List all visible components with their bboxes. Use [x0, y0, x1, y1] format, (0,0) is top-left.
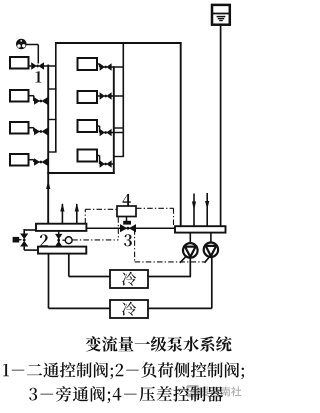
left group riser B	[55, 42, 57, 152]
return header manifold	[175, 226, 226, 232]
header interconnect pipe (left end, top)	[24, 229, 36, 235]
label 3	[124, 234, 132, 246]
bottom connector from left riser A to middle riser A	[47, 172, 114, 174]
fan-coil unit M3 (middle riser group)	[78, 120, 98, 132]
fan-coil unit L4 (left riser group)	[10, 154, 29, 166]
drop pipe to chiller 1	[69, 254, 110, 277]
supply stub with up arrow (1)	[60, 203, 64, 224]
chiller 1 (cold water unit)	[110, 270, 148, 288]
two-way control valve on coil L3 outlet	[29, 128, 50, 136]
watermark logo	[186, 385, 199, 397]
bypass valve 3	[120, 224, 136, 232]
label 4	[123, 194, 131, 206]
left group riser A (return)	[47, 65, 49, 224]
pump P2	[204, 243, 218, 257]
fan-coil unit M2 (middle riser group)	[78, 91, 98, 103]
control valve 1 actuator (circle symbol)	[16, 39, 27, 50]
drop pipe to chiller 2	[49, 254, 111, 309]
fan-coil unit M4 (middle riser group)	[78, 150, 98, 162]
sensing line tap on return header	[136, 208, 174, 226]
caption legend line 1	[3, 362, 244, 379]
pump P1 suction pipe	[189, 233, 191, 244]
supply main: right vertical drop	[180, 42, 182, 226]
middle group riser B	[122, 42, 124, 156]
two-way control valve on coil M4 outlet	[97, 156, 115, 168]
fan-coil unit L1 (left riser group)	[10, 57, 29, 69]
label 1	[36, 71, 42, 82]
signal line from actuator to valve 1	[27, 45, 39, 64]
supply stub with up arrow (2)	[75, 203, 79, 224]
pump P2 discharge pipe to chiller 2	[148, 257, 212, 308]
pump P1	[183, 243, 198, 258]
two-way control valve on coil L4 outlet	[29, 158, 50, 166]
shut-off valve with handle	[13, 234, 29, 247]
signal line from controller to valve 2	[72, 217, 118, 240]
watermark text	[200, 386, 242, 396]
rung between middle risers at row 3	[114, 127, 124, 129]
two-way control valve on coil M2 outlet	[97, 92, 124, 99]
supply main: top header line	[55, 42, 182, 44]
chiller supply manifold	[38, 247, 86, 254]
return stub with down arrow (1)	[192, 194, 196, 227]
rung between left risers (row 2-3)	[48, 119, 56, 121]
chiller 2 (cold water unit)	[110, 300, 148, 318]
pump P2 suction pipe	[210, 233, 212, 243]
return stub with down arrow (2)	[205, 193, 209, 226]
supply header manifold	[36, 224, 86, 231]
differential pressure controller box 4	[117, 206, 136, 217]
label 2	[40, 235, 48, 247]
sensing line tap on supply header	[85, 209, 117, 223]
signal tap to pump P1	[180, 256, 186, 263]
caption legend line 2	[29, 386, 223, 403]
fan-coil unit L3 (left riser group)	[10, 122, 29, 134]
actuator stem from controller to bypass valve	[123, 217, 131, 225]
fan-coil unit M1 (middle riser group)	[78, 58, 98, 70]
two-way control valve on coil L2 outlet	[29, 96, 50, 105]
load-side control valve 2 with actuator circle	[55, 231, 72, 247]
bottom elbow of left riser B	[48, 151, 57, 153]
signal line from bypass valve to pumps	[135, 229, 205, 262]
flow arrow up on left riser A	[46, 181, 50, 190]
expansion tank	[212, 5, 230, 25]
bypass pipe between headers	[86, 227, 176, 229]
middle group riser A (return)	[113, 66, 115, 174]
expansion tank connecting pipe	[220, 25, 222, 227]
bottom elbow of middle riser B	[114, 156, 124, 158]
header interconnect pipe (left end, bottom)	[24, 246, 38, 250]
signal tap to pump P2	[204, 256, 210, 263]
two-way control valve on coil L1 outlet	[29, 62, 57, 70]
rung between left risers (row 1-2)	[48, 88, 56, 90]
two-way control valve on coil M1 outlet	[97, 63, 124, 70]
fan-coil unit L2 (left riser group)	[10, 90, 29, 102]
caption title	[86, 336, 232, 351]
pump P1 discharge pipe to chiller 1	[148, 258, 191, 277]
two-way control valve on coil M3 outlet	[97, 126, 124, 136]
